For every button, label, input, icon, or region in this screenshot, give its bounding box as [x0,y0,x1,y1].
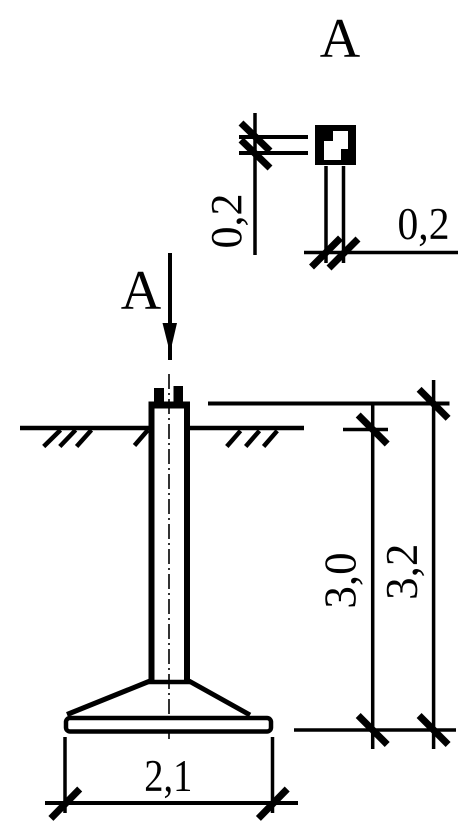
svg-text:0,2: 0,2 [398,199,450,249]
svg-text:0,2: 0,2 [202,194,251,249]
dimension line 3,0 [371,404,375,750]
svg-text:3,0: 3,0 [316,552,366,608]
dimension line 2,1 [45,801,298,805]
extension line at ground level for 3,0 dimension [343,428,388,432]
extension line at slab bottom for 3,0 and 3,2 dimensions [294,728,456,732]
anchor bolt right [174,386,184,402]
detail horizontal dimension line 0,2 [304,251,458,255]
ground hatching left group [44,430,148,447]
svg-text:3,2: 3,2 [377,544,427,600]
detail extension line left (below square) [324,166,328,263]
footing right slope [189,681,250,715]
tick mark 2,1 right [258,789,287,818]
extension line from column top to 3,2 dimension [208,402,450,406]
section arrow head [163,323,178,353]
footing left slope [67,681,150,715]
tick mark left on horizontal 0,2 dimension [312,238,341,267]
ground line right segment [190,426,304,431]
detail extension line right (below square) [342,166,346,263]
ground hatching right group [227,431,277,447]
anchor bolt left [154,388,164,402]
column shaft (with top cap) [149,402,191,684]
detail extension line upper (left of square) [239,135,308,139]
tick mark 3,2 top [419,389,448,418]
svg-text:A: A [121,260,162,322]
dimension line 3,2 [432,380,436,749]
section A-A detail: column cross-section square [315,125,356,165]
tick mark upper on vertical 0,2 dimension [241,123,270,151]
tick mark 3,0 top [358,415,387,444]
base slab [66,718,271,732]
detail vertical dimension line 0,2 [253,113,257,255]
svg-text:2,1: 2,1 [144,751,192,801]
tick mark 2,1 left [51,789,80,818]
section arrow shaft [168,253,172,360]
tick mark 3,2 bottom [419,716,448,745]
footing joint line at column base [149,680,191,685]
detail extension line lower (left of square) [239,151,308,155]
tick mark right on horizontal 0,2 dimension [329,239,358,268]
tick mark 3,0 bottom [358,716,387,745]
extension line right for 2,1 dimension [271,737,275,813]
tick mark lower on vertical 0,2 dimension [241,140,270,168]
extension line left for 2,1 dimension [63,737,67,813]
ground line left segment [20,426,149,431]
svg-text:A: A [320,8,361,70]
centerline of column [168,374,170,741]
